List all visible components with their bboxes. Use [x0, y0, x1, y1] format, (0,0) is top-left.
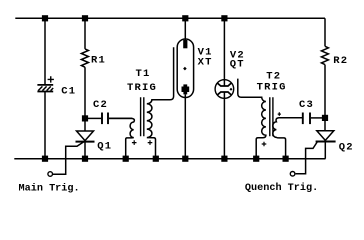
svg-text:C1: C1 — [61, 86, 76, 98]
junction bottom rail at T1 right — [153, 156, 159, 162]
junction bottom rail at V1 — [182, 156, 188, 162]
terminal Main Trig. — [48, 172, 53, 177]
thyristor Q2 — [296, 131, 336, 174]
thyristor Q1 — [53, 131, 95, 174]
V2 internal dot — [230, 88, 233, 91]
V1 envelope — [177, 39, 193, 98]
svg-text:Quench Trig.: Quench Trig. — [245, 182, 318, 194]
junction top rail at V2 — [221, 15, 227, 21]
wire top rail — [15, 17, 325, 19]
junction bottom rail at C1 — [42, 156, 48, 162]
junction node C3 — [322, 115, 328, 121]
svg-text:R2: R2 — [333, 55, 348, 67]
V1 anode — [184, 18, 186, 40]
flash tube V1 — [177, 18, 193, 158]
junction top rail at C1 — [42, 15, 48, 21]
T2 secondary winding (to V2 trigger) — [238, 79, 266, 159]
capacitor C3 — [303, 113, 310, 125]
wire R1 to Q1 node — [84, 67, 86, 131]
V1 cathode — [182, 87, 190, 93]
svg-text:Q2: Q2 — [339, 142, 354, 154]
T1 primary winding — [109, 118, 134, 158]
wire Q1 node to C2 — [85, 117, 101, 119]
transformer T2 — [238, 79, 302, 159]
junction bottom rail at V2 — [221, 156, 227, 162]
V2 lower wire — [223, 92, 225, 159]
svg-text:XT: XT — [198, 57, 213, 69]
T1 polarity marks — [132, 140, 152, 145]
wire right drop to R2 — [324, 18, 326, 46]
wire bottom rail — [14, 158, 325, 160]
transformer T1 — [109, 47, 174, 158]
junction bottom rail at T2 left — [253, 156, 259, 162]
junction bottom rail at Q1 — [82, 156, 88, 162]
T1 core — [141, 97, 144, 136]
capacitor C2 — [102, 113, 108, 125]
wire C1 branch upper — [44, 18, 46, 84]
junction bottom rail at T1 left — [123, 156, 129, 162]
wire C2 to T1 primary — [109, 117, 132, 119]
junction bottom rail at T2 right — [283, 156, 289, 162]
svg-text:TRIG: TRIG — [257, 81, 287, 93]
resistor R2 — [321, 46, 328, 64]
V2 upper wire — [223, 18, 225, 86]
svg-text:Main Trig.: Main Trig. — [19, 183, 80, 195]
junction node C2 — [82, 115, 88, 121]
svg-text:TRIG: TRIG — [127, 82, 157, 94]
T2 core — [270, 97, 273, 136]
wire R1 branch upper — [84, 18, 86, 49]
svg-text:C2: C2 — [93, 99, 108, 111]
quench tube V2 — [215, 18, 234, 158]
wire R2 to Q2 — [324, 65, 326, 131]
svg-text:Q1: Q1 — [97, 141, 112, 153]
T1 secondary winding — [147, 47, 174, 158]
V2 envelope — [215, 80, 234, 99]
T2 polarity marks — [262, 112, 281, 146]
capacitor C1 — [37, 76, 54, 91]
junction top rail at R1 — [82, 15, 88, 21]
V2 electrodes — [218, 83, 232, 86]
svg-text:C3: C3 — [299, 99, 314, 111]
terminal Quench Trig. — [290, 172, 295, 177]
V1 internal dot — [183, 67, 187, 71]
junction top rail at V1 — [182, 15, 188, 21]
svg-text:R1: R1 — [91, 54, 106, 66]
wire C1 branch lower — [44, 92, 46, 159]
T2 primary winding — [273, 118, 302, 159]
svg-text:T1: T1 — [136, 68, 151, 80]
wire C3 to right rail — [311, 117, 325, 119]
svg-text:QT: QT — [230, 58, 245, 70]
resistor R1 — [81, 49, 88, 67]
